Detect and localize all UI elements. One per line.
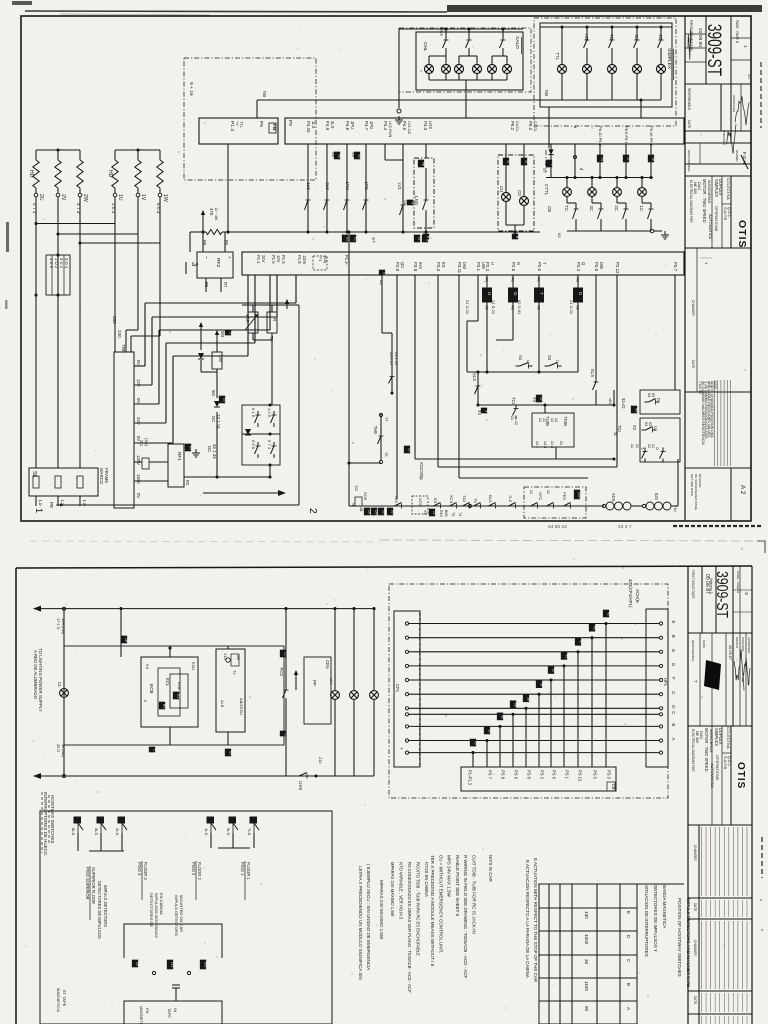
svg-text:P1.3: P1.3 [229,121,235,131]
svg-text:XCS: XCS [418,498,422,506]
svg-text:P1.3-: P1.3- [344,255,349,266]
XECU box [216,649,245,732]
svg-text:21: 21 [559,441,563,445]
svg-text:PS 3: PS 3 [607,770,612,780]
svg-text:TAPE: TAPE [167,1008,172,1018]
svg-text:ALB: ALB [220,700,225,708]
hall lantern box XALD [416,32,523,90]
dash-dot frame 9+16 [184,58,316,180]
svg-text:P6: P6 [258,121,264,127]
svg-text:GFC: GFC [538,492,543,500]
svg-text:1LS: 1LS [204,828,209,835]
svg-text:ALB: ALB [177,682,182,690]
svg-text:FLOOR 3: FLOOR 3 [143,862,148,880]
svg-text:M: M [283,733,287,736]
svg-text:PS 8: PS 8 [527,770,532,780]
svg-text:DUPLEX: DUPLEX [718,179,723,196]
car lamp row rail [546,177,653,179]
svg-text:NE 300: NE 300 [695,731,699,743]
magnet tape box [124,1001,222,1024]
svg-text:19: 19 [407,448,411,452]
svg-text:DETECTORES DE IMPULSOS: DETECTORES DE IMPULSOS [97,881,102,939]
diode W1 [214,401,220,407]
svg-text:54: 54 [539,683,543,687]
svg-text:L1-: L1- [38,500,43,507]
simplex lamp bottom wires [561,73,563,100]
svg-text:21 U 22: 21 U 22 [569,300,574,315]
XALD bottom bus [429,79,507,81]
svg-text:A 2: A 2 [739,485,746,495]
svg-text:0V: 0V [136,360,141,365]
contact block 605 [242,405,280,465]
svg-text:22: 22 [635,444,639,448]
svg-text:RESPONSIBLE: RESPONSIBLE [687,150,691,172]
margin dash sheet1 right [760,62,762,128]
wire P6 up over to P9 [256,100,258,118]
svg-text:22: 22 [647,444,651,448]
svg-text:3 U 4: 3 U 4 [59,258,64,269]
title block sheet1 outer [684,16,686,521]
svg-text:P4.7: P4.7 [364,121,369,131]
svg-text:X8: X8 [337,154,341,158]
svg-text:3: 3 [743,592,749,595]
svg-text:DRAWN: DRAWN [735,150,739,161]
scan streak top [447,5,762,12]
sheet1 border frame [21,16,751,521]
svg-text:ECU: ECU [191,662,196,670]
svg-text:U: U [526,360,531,363]
svg-text:B: B [626,983,631,986]
svg-text:4B: 4B [513,703,517,707]
car lamp bottom rail to ground [567,230,651,232]
svg-text:SK: SK [31,471,37,478]
svg-text:64: 64 [644,422,648,426]
svg-text:PP: PP [312,680,317,686]
svg-text:TC: TC [564,205,569,211]
X2 contact cluster [613,390,615,405]
svg-text:A1: A1 [511,278,515,282]
svg-text:ECL: ECL [165,678,170,687]
bottom row left verticals [348,232,350,506]
svg-text:4B: 4B [421,162,425,166]
svg-text:90: 90 [584,1006,589,1012]
svg-text:D: D [671,705,676,708]
svg-text:N8: N8 [634,408,638,412]
svg-text:60: 60 [228,751,232,755]
X8 X9 brackets [334,152,341,159]
svg-text:421(CP1/HP1): 421(CP1/HP1) [628,579,633,608]
bus brackets [414,235,421,242]
svg-text:P2.6: P2.6 [537,262,542,272]
svg-text:1C: 1C [639,205,644,211]
svg-text:T10: T10 [462,495,467,503]
svg-text:1000: 1000 [584,934,589,945]
key-date section sheet1 [730,468,732,521]
lamp 2 [353,609,355,691]
TES ES XCS contact row [391,503,406,509]
svg-text:17 2 D: 17 2 D [56,618,61,630]
6LS wire [477,382,479,405]
svg-text:A2: A2 [576,306,580,310]
svg-text:1PU: 1PU [350,121,355,129]
svg-text:2D: 2D [658,34,663,40]
svg-text:MOTOR : TWO SPEED: MOTOR : TWO SPEED [702,179,707,223]
svg-text:+: + [398,747,403,750]
svg-text:CL: CL [57,682,62,688]
svg-text:MANIOBRAS: MANIOBRAS [709,729,714,753]
N2 M brackets [280,650,287,657]
fuse S1 4A [142,458,149,469]
svg-text:APPROVED: APPROVED [732,95,736,113]
svg-text:130: 130 [584,911,589,919]
svg-text:P1.8: P1.8 [297,255,302,264]
lamp 3 [373,609,375,691]
svg-text:MOUNTED ON CAR: MOUNTED ON CAR [179,895,184,932]
svg-text:DATE: DATE [693,996,697,1004]
svg-text:E ACTUACION RESPECTO A LA PARA: E ACTUACION RESPECTO A LA PARADA DE LA C… [525,860,530,978]
svg-text:SITUACION DE INTERRUPTORES: SITUACION DE INTERRUPTORES [644,885,649,957]
svg-text:P4.8: P4.8 [345,121,350,131]
simplex top bus [540,26,672,28]
svg-text:SLS: SLS [590,369,595,377]
svg-text:DATE: DATE [693,903,697,911]
svg-text:ECB: ECB [149,684,154,694]
approval signatures block [720,84,722,131]
svg-text:L3-: L3- [82,500,87,507]
svg-text:1LS: 1LS [306,182,311,190]
svg-text:POSITION OF HOISTWAY SWITCH: POSITION OF HOISTWAY SWITCHES [677,898,682,977]
svg-text:DRAWN: DRAWN [735,637,739,648]
terminal block 1U2 [46,255,70,295]
svg-text:3L: 3L [524,160,528,164]
svg-text:CEN: CEN [325,660,330,669]
svg-text:P2.12: P2.12 [615,262,620,274]
svg-text:24V: 24V [261,255,266,263]
XALD top bus [399,28,523,30]
svg-text:P6.9 P6.1: P6.9 P6.1 [624,126,629,144]
wire RF1 output [184,476,270,478]
lighting top bus [39,608,374,610]
title block sheet1 dividers [685,83,751,85]
svg-text:~: ~ [203,256,208,259]
svg-text:6: 6 [143,700,147,702]
svg-text:PES: PES [562,492,567,500]
svg-text:DETECTORES DE IMPULSOS Y: DETECTORES DE IMPULSOS Y [653,885,658,952]
svg-text:CHL: CHL [423,42,428,52]
svg-text:21 D 22: 21 D 22 [491,300,496,315]
svg-text:P2.8: P2.8 [395,262,400,272]
ruled lines change note [714,380,716,466]
svg-text:LIH: LIH [329,678,334,684]
simplex lamps TTL HB TD 2D 1U [558,65,567,74]
svg-text:PISO 1: PISO 1 [240,862,245,876]
svg-text:64: 64 [647,393,651,397]
svg-text:DW: DW [462,262,467,269]
svg-text:BLS: BLS [488,495,493,503]
svg-text:G: G [516,262,521,265]
svg-text:MAGNETICA: MAGNETICA [56,988,61,1012]
svg-text:COLECTIVA: COLECTIVA [726,178,731,200]
bracket rails [89,850,124,852]
svg-text:43: 43 [564,654,568,658]
svg-text:2U: 2U [38,194,44,201]
svg-text:9 8: 9 8 [145,664,149,669]
floor label dividers [89,866,91,920]
svg-text:DETECTORES DE: DETECTORES DE [149,893,154,927]
svg-text:PS 5: PS 5 [593,770,598,780]
svg-text:26.06.87: 26.06.87 [728,645,733,660]
svg-text:LNS: LNS [428,121,433,129]
svg-text:U: U [490,262,495,265]
wire right column [677,459,679,462]
svg-text:22: 22 [538,418,542,422]
svg-text:3: 3 [228,332,232,334]
svg-text:2B: 2B [124,638,128,642]
svg-text:MAGNETICA: MAGNETICA [139,1006,144,1024]
svg-text:PCS: PCS [279,667,284,676]
svg-text:T5: T5 [451,512,455,516]
svg-text:45: 45 [592,626,596,630]
svg-text:G: G [671,663,676,667]
svg-text:X9: X9 [351,152,356,157]
sheet2 description section [730,726,732,825]
svg-text:PS 9: PS 9 [501,770,506,780]
svg-text:A1: A1 [485,278,489,282]
svg-text:W3: W3 [220,331,225,338]
svg-text:PS 1: PS 1 [565,770,570,780]
svg-text:P2.4: P2.4 [576,262,581,272]
svg-text:13: 13 [550,418,554,422]
svg-text:CEN: CEN [577,492,581,499]
svg-text:P3.1: P3.1 [476,262,481,272]
svg-text:XCH(B: XCH(B [635,589,640,603]
svg-text:1 U 2: 1 U 2 [49,258,54,269]
svg-text:AB: AB [236,655,240,660]
svg-text:3L: 3L [613,432,617,436]
svg-text:COLECTIVA: COLECTIVA [726,727,731,749]
svg-text:14.8: 14.8 [543,441,547,448]
module CM [212,352,222,369]
rectifier RF1 [168,444,184,487]
svg-text:10: 10 [222,398,226,402]
svg-text:LNS: LNS [414,196,419,205]
XALD left stub [398,29,400,108]
LIHS switch [295,773,311,779]
svg-text:X4: X4 [477,410,482,416]
svg-text:HOISTWAY SWITCHES: HOISTWAY SWITCHES [50,795,55,843]
svg-text:5 0 6: 5 0 6 [251,440,256,450]
wires ECB to rails [169,727,171,745]
diode arrow at bus [202,218,204,232]
svg-text:P1.4: P1.4 [256,255,261,264]
svg-text:SOS: SOS [363,492,368,501]
rectifier RF2 [197,252,233,278]
svg-text:ES: ES [433,498,438,504]
svg-text:P4.6: P4.6 [402,121,407,131]
svg-text:RESPONSIBLE: RESPONSIBLE [691,640,695,662]
fuse F1 5A [313,256,327,270]
detector box [124,924,222,958]
svg-text:HD: HD [28,170,34,178]
svg-text:RF2: RF2 [215,258,221,267]
ladder left connector box [394,611,420,767]
svg-text:W1: W1 [211,390,216,397]
lamp LIH [334,609,336,691]
svg-text:MPARAS 24V MAXIMO 1,5W: MPARAS 24V MAXIMO 1,5W [390,862,395,917]
svg-text:U: U [653,426,658,429]
svg-text:1: 1 [152,749,156,751]
svg-text:LV2-RUN: LV2-RUN [388,121,393,138]
S3 S4 contacts row [467,371,578,373]
svg-text:220: 220 [117,330,122,338]
arrow terminator mid [203,492,280,494]
svg-text:EN: EN [145,1008,150,1014]
svg-text:P1.5: P1.5 [281,255,286,264]
svg-text:X9: X9 [357,154,361,158]
svg-text:P6.16 P6.5: P6.16 P6.5 [649,126,654,147]
svg-text:E: E [626,911,631,914]
svg-text:P3.7: P3.7 [673,262,678,272]
svg-text:FLOOR 2: FLOOR 2 [197,862,202,880]
svg-text:P3.3: P3.3 [436,262,441,272]
value table [539,884,637,1024]
svg-text:NB: NB [262,91,267,97]
svg-text:52: 52 [551,669,555,673]
svg-text:B: B [515,236,519,238]
svg-text:D: D [578,292,583,295]
svg-text:62 G 61: 62 G 61 [517,300,522,315]
transformer TRF [114,352,134,508]
svg-text:A2: A2 [537,306,541,310]
svg-text:R2: R2 [185,480,190,486]
svg-text:4 0 5: 4 0 5 [267,408,272,418]
svg-text:F: F [671,677,676,680]
svg-text:DATE: DATE [702,640,706,648]
svg-text:2B: 2B [359,507,363,512]
svg-text:K2: K2 [353,237,357,241]
svg-text:E ACTUATION WITH RESPECT TO TH: E ACTUATION WITH RESPECT TO THE STOP OF … [533,858,538,983]
svg-text:380: 380 [112,316,117,324]
svg-text:6LS: 6LS [94,828,99,835]
svg-text:GM: GM [374,510,378,515]
svg-text:P4.4: P4.4 [383,121,388,131]
wire resistor interconnects [35,197,37,468]
svg-text:ADS: ADS [611,493,616,502]
svg-text:HB: HB [584,34,589,40]
wire rows lower right [414,275,416,459]
svg-text:T9: T9 [473,498,478,503]
svg-text:P9: P9 [288,120,293,126]
signature checked [726,124,736,154]
svg-text:X7: X7 [371,237,376,243]
svg-text:B2: B2 [557,233,562,238]
svg-text:PISO 2: PISO 2 [191,862,196,876]
PP box [304,657,331,724]
svg-text:C: C [671,691,676,694]
svg-text:5G: 5G [600,157,604,162]
svg-text:T3: T3 [544,160,549,166]
svg-text:XSCS/8p: XSCS/8p [419,462,424,481]
svg-text:110V: 110V [136,474,141,484]
svg-text:24V: 24V [136,417,141,425]
car lamp group dash boundary [545,150,547,172]
svg-text:TO LIGHTING POWER SUPPLY: TO LIGHTING POWER SUPPLY [38,648,43,712]
svg-text:DIB: DIB [599,262,604,269]
svg-text:2W: 2W [82,194,88,202]
svg-text:64 50 22: 64 50 22 [548,524,567,530]
svg-text:1PD: 1PD [369,121,374,129]
svg-text:IMPULSOS MONTADOS: IMPULSOS MONTADOS [154,893,159,938]
svg-text:XALD: XALD [514,36,520,49]
svg-text:2LS: 2LS [325,182,330,190]
hoistway box outer [40,811,332,1024]
svg-text:PS 2: PS 2 [540,770,545,780]
svg-text:1LS: 1LS [311,121,316,129]
svg-text:R WIRING IN FIELD SEE DRAWING: R WIRING IN FIELD SEE DRAWING : T026ACB … [463,855,468,979]
svg-text:ALT.: ALT. [747,74,751,80]
tape symbol [172,984,180,986]
svg-text:A RED DE ALUMBRADO: A RED DE ALUMBRADO [33,650,38,700]
svg-text:63: 63 [648,422,652,426]
sheet2 signature section [699,633,701,726]
svg-text:DUO: DUO [697,182,701,190]
svg-text:X1: X1 [403,200,408,205]
svg-text:CM: CM [218,355,223,362]
svg-text:RA CONEXIONADO EN OBRAS VER PL: RA CONEXIONADO EN OBRAS VER PLANO : T026… [407,862,412,993]
svg-text:3 O 4: 3 O 4 [64,258,69,269]
hoistway switch group lower floors [207,817,216,833]
svg-text:B: B [671,723,676,726]
svg-text:R7: R7 [223,282,228,288]
svg-text:R: R [272,318,277,321]
arrow W3 [215,330,219,340]
svg-text:CHANGER: CHANGER [693,940,697,957]
svg-text:C: C [671,711,676,714]
svg-text:IPU: IPU [203,962,207,968]
svg-text:MPARAS 24V MAXIMO 1.5W: MPARAS 24V MAXIMO 1.5W [379,880,384,940]
svg-text:MANIOBRAS: MANIOBRAS [707,180,712,204]
svg-text:NB: NB [544,90,549,96]
svg-text:50: 50 [390,510,394,514]
svg-text:LIHS: LIHS [298,781,303,790]
svg-text:B0: B0 [162,704,166,708]
svg-text:CHECKED: CHECKED [722,130,726,146]
svg-text:RESPONSIBLE: RESPONSIBLE [687,88,691,110]
power staircase wires [134,365,145,367]
SLS wire [595,275,597,378]
svg-text:(4A): (4A) [144,438,149,446]
PE return wire [58,504,299,506]
svg-text:43: 43 [606,612,610,616]
svg-text:IN: IN [173,1008,178,1012]
svg-text:P6.10 P6.2: P6.10 P6.2 [598,126,603,147]
svg-text:CHANGER: CHANGER [691,300,695,317]
svg-text:PS 10: PS 10 [578,770,583,782]
svg-text:DATE: DATE [687,120,691,128]
svg-text:LV1: LV1 [397,183,402,191]
ladder right connector box [646,609,668,767]
wire TRF to RF1 [134,461,142,463]
svg-text:T4: T4 [458,512,462,516]
svg-text:34 1 33: 34 1 33 [212,444,217,459]
svg-text:12V: 12V [136,379,141,387]
svg-text:A2: A2 [379,280,384,285]
svg-text:Q.C.L.: Q.C.L. [727,756,732,767]
title block sheet2 outer [687,566,689,1024]
svg-text:D1: D1 [176,694,180,698]
svg-text:MARCO: MARCO [99,468,104,485]
svg-text:LV1-DZ: LV1-DZ [407,121,412,135]
